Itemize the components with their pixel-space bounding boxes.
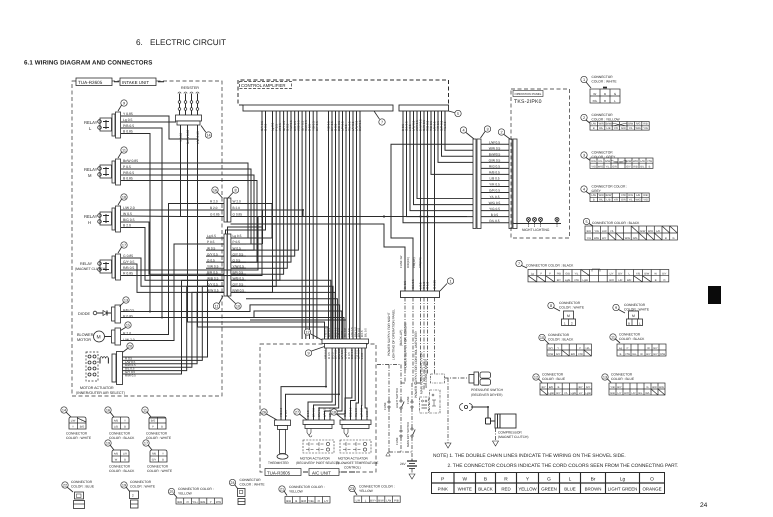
svg-text:11: 11 (122, 149, 126, 153)
svg-text:Y/L: Y/L (629, 199, 633, 202)
svg-text:Br: Br (594, 92, 597, 96)
svg-text:R/L: R/L (599, 199, 604, 202)
control amplifier connector bar (right) (399, 105, 449, 111)
svg-text:CONNECTOR: CONNECTOR (548, 333, 570, 337)
svg-text:RELAY: RELAY (80, 262, 93, 266)
svg-text:P/B: P/B (557, 273, 561, 276)
wire bundle: control amplifier to connector 11/10 (231, 111, 317, 339)
svg-text:G/R: G/R (612, 165, 617, 168)
connector 14 (white) (61, 407, 92, 440)
svg-text:G/Y: G/Y (556, 353, 561, 356)
svg-text:B: B (124, 459, 126, 462)
svg-text:COLOR : WHITE: COLOR : WHITE (147, 469, 173, 473)
svg-text:CONNECTOR: CONNECTOR (146, 432, 168, 436)
svg-text:16: 16 (106, 409, 110, 413)
svg-text:24V: 24V (400, 462, 407, 466)
svg-text:Y/B: Y/B (636, 273, 640, 276)
svg-text:6.: 6. (136, 38, 143, 47)
svg-text:B/R: B/R (652, 386, 656, 389)
connector table 5 (black) (583, 218, 677, 240)
svg-text:4: 4 (462, 129, 464, 133)
svg-text:Y/A: Y/A (587, 237, 591, 240)
svg-text:B/L: B/L (639, 392, 643, 395)
relay (magnet clutch) (98, 242, 128, 280)
wires: motor actuator 20 to bus (123, 280, 225, 374)
svg-text:W/G: W/G (636, 127, 641, 130)
wires at connector 11/10 (206, 234, 272, 292)
svg-text:14: 14 (62, 409, 66, 413)
svg-text:R/L: R/L (593, 99, 598, 103)
svg-text:CONNECTOR: CONNECTOR (109, 432, 131, 436)
svg-text:P: P (152, 426, 154, 429)
wires at connector 16/8 (209, 200, 272, 244)
svg-text:G 0.85: G 0.85 (433, 280, 437, 289)
svg-text:CONNECTOR COLOR : BLACK: CONNECTOR COLOR : BLACK (526, 264, 574, 268)
svg-text:THERMISTER: THERMISTER (268, 461, 289, 465)
svg-text:B/W: B/W (594, 237, 599, 240)
svg-text:P: P (441, 477, 444, 483)
svg-text:B: B (161, 426, 163, 429)
svg-text:B/R: B/R (549, 386, 553, 389)
svg-text:B/O: B/O (609, 279, 613, 282)
connector 9 (white) (613, 303, 650, 326)
svg-text:Lg: Lg (620, 477, 626, 483)
svg-text:CONNECTOR: CONNECTOR (130, 480, 152, 484)
motor actuator (recovery port select) (27) (294, 348, 346, 465)
svg-text:YELLOW: YELLOW (289, 490, 304, 494)
svg-text:R/B: R/B (643, 194, 648, 197)
svg-text:R/L: R/L (598, 160, 603, 163)
svg-text:B/G: B/G (80, 426, 84, 429)
svg-text:CONNECTOR COLOR :: CONNECTOR COLOR : (289, 485, 325, 489)
svg-text:L/W: L/W (591, 194, 596, 197)
svg-text:17: 17 (144, 442, 148, 446)
svg-text:R/B: R/B (152, 453, 157, 456)
svg-text:R/L 0.5: R/L 0.5 (354, 408, 358, 417)
svg-text:7: 7 (518, 262, 520, 266)
svg-text:BROWN: BROWN (585, 487, 602, 492)
power supply function labels (387, 309, 428, 398)
svg-text:Y/B 0.5: Y/B 0.5 (279, 407, 283, 417)
svg-text:CONNECTOR: CONNECTOR (592, 151, 614, 155)
svg-text:L/Y 0.5: L/Y 0.5 (323, 408, 327, 417)
svg-text:W/R: W/R (599, 194, 604, 197)
svg-text:Y: Y (162, 453, 164, 456)
wire: main power run (231, 209, 467, 218)
svg-text:G/B: G/B (610, 392, 615, 395)
svg-text:R 1.0: R 1.0 (426, 281, 430, 289)
svg-text:O 0.5: O 0.5 (284, 410, 288, 417)
svg-text:G: G (547, 477, 551, 483)
wires: diode and blower to bus (121, 204, 305, 341)
svg-text:CONNECTOR: CONNECTOR (147, 465, 169, 469)
svg-text:COLOR : WHITE: COLOR : WHITE (240, 483, 266, 487)
svg-text:L/R: L/R (356, 498, 360, 502)
night lighting lamps (514, 218, 562, 233)
svg-text:G/W: G/W (605, 160, 611, 163)
connector table 2 (yellow) (581, 113, 649, 130)
svg-text:W 2.0: W 2.0 (233, 200, 242, 204)
svg-text:L: L (569, 477, 572, 483)
svg-text:W/G: W/G (598, 165, 603, 168)
svg-text:G/Y: G/Y (626, 165, 631, 168)
svg-text:COLOR : BLUE: COLOR : BLUE (611, 377, 635, 381)
svg-text:CONNECTOR: CONNECTOR (542, 373, 564, 377)
pointer 5 (control amplifier connector right) (449, 110, 462, 116)
svg-text:H: H (88, 220, 91, 225)
svg-text:CONNECTOR COLOR : BLACK: CONNECTOR COLOR : BLACK (592, 221, 640, 225)
relay magnet-clutch output wires (123, 254, 135, 276)
svg-text:L/R: L/R (123, 453, 127, 456)
svg-text:ELECTRIC CIRCUIT: ELECTRIC CIRCUIT (150, 38, 226, 47)
svg-text:YELLOW: YELLOW (178, 492, 193, 496)
svg-text:13: 13 (124, 299, 128, 303)
svg-text:Y/G: Y/G (643, 199, 647, 202)
svg-text:R/G: R/G (636, 123, 641, 126)
svg-text:WHITE: WHITE (458, 487, 472, 492)
svg-text:L/B: L/B (114, 426, 118, 429)
svg-text:B/Y: B/Y (602, 237, 606, 240)
svg-text:G/L: G/L (632, 353, 637, 356)
svg-text:Y: Y (210, 500, 212, 504)
svg-text:16: 16 (213, 189, 217, 193)
svg-text:Y 0.85: Y 0.85 (179, 133, 183, 142)
relay H output wires (123, 206, 135, 228)
svg-text:CONNECTOR: CONNECTOR (592, 75, 614, 79)
svg-text:Y/B+: Y/B+ (308, 499, 315, 503)
svg-text:NIGHT LIGHTING: NIGHT LIGHTING (522, 228, 550, 232)
svg-text:25: 25 (169, 490, 173, 494)
svg-text:3: 3 (486, 128, 488, 132)
svg-text:G 0.85: G 0.85 (123, 254, 133, 258)
svg-text:MAIN POWER SUPPLY FOR: MAIN POWER SUPPLY FOR (420, 352, 424, 394)
svg-text:Y/W: Y/W (621, 194, 626, 197)
svg-text:L/B: L/B (636, 194, 640, 197)
pressure switch (receiver dryer) (445, 372, 504, 448)
svg-text:COLOR : BLACK: COLOR : BLACK (109, 436, 135, 440)
svg-text:L/R 0.5: L/R 0.5 (360, 408, 364, 417)
svg-text:2. THE CONNECTOR COLORS INDICA: 2. THE CONNECTOR COLORS INDICATE THE COR… (448, 463, 679, 469)
svg-text:R/B: R/B (643, 123, 648, 126)
connector 11b (white) (142, 407, 172, 440)
svg-text:P: P (579, 347, 581, 350)
wire labels above connector 12/9 (324, 327, 368, 337)
svg-text:Y/B: Y/B (610, 386, 614, 389)
svg-text:NOTE) 1. THE DOUBLE CHAIN LINE: NOTE) 1. THE DOUBLE CHAIN LINES INDICATE… (433, 453, 626, 459)
svg-text:B/R: B/R (571, 353, 575, 356)
svg-text:CONTROL): CONTROL) (344, 465, 361, 469)
svg-text:R 0.85: R 0.85 (123, 272, 133, 276)
svg-text:B: B (593, 199, 595, 202)
svg-text:CONTROL AMPLIFIER: CONTROL AMPLIFIER (241, 83, 286, 88)
svg-text:G/Y: G/Y (586, 386, 591, 389)
svg-text:A/B: A/B (114, 420, 118, 423)
wires: control amplifier to connector 4 (403, 111, 473, 223)
svg-text:CONNECTOR: CONNECTOR (592, 113, 614, 117)
svg-text:Y/G: Y/G (643, 127, 647, 130)
svg-text:Y/L: Y/L (564, 392, 568, 395)
svg-text:B: B (649, 165, 651, 168)
pointer 7 (control amplifier connector) (374, 111, 385, 125)
shovel-side power chains (double chain lines) (377, 298, 445, 480)
svg-text:B: B (593, 127, 595, 130)
svg-text:(BACK-UP): (BACK-UP) (399, 330, 403, 346)
svg-text:B/R: B/R (178, 500, 183, 504)
svg-text:R: R (504, 477, 508, 483)
svg-text:INTAKE UNIT: INTAKE UNIT (122, 80, 149, 85)
svg-text:(MAGNET CLUTCH): (MAGNET CLUTCH) (498, 435, 529, 439)
svg-text:P/B 0.5: P/B 0.5 (123, 124, 134, 128)
svg-text:Lg/B: Lg/B (548, 392, 554, 395)
power supply connector bar 1 (401, 278, 454, 298)
svg-text:M: M (567, 314, 570, 318)
svg-text:L/W 0.85: L/W 0.85 (196, 131, 200, 144)
section heading (24, 60, 152, 67)
svg-text:CONNECTOR COLOR :: CONNECTOR COLOR : (359, 485, 395, 489)
svg-text:B/Y: B/Y (579, 386, 583, 389)
connector table 13 (blue) (602, 373, 665, 396)
svg-text:Y/W 0.5: Y/W 0.5 (207, 264, 219, 268)
svg-text:4: 4 (583, 188, 585, 192)
svg-text:R/G 0.5: R/G 0.5 (489, 165, 500, 169)
svg-text:R/L 0.5: R/L 0.5 (489, 219, 499, 223)
svg-text:R/G: R/G (591, 160, 596, 163)
svg-text:O/B(1W): O/B(1W) (406, 257, 410, 268)
svg-text:B/R: B/R (627, 279, 631, 282)
svg-text:CONNECTOR: CONNECTOR (71, 480, 93, 484)
svg-text:COLOR : WHITE: COLOR : WHITE (559, 306, 585, 310)
svg-text:8: 8 (234, 189, 236, 193)
svg-text:Y/W: Y/W (625, 353, 630, 356)
svg-text:Y/L: Y/L (629, 127, 633, 130)
page edge tab (708, 286, 721, 304)
svg-text:CONNECTOR: CONNECTOR (559, 301, 581, 305)
svg-text:O: O (650, 477, 654, 483)
svg-text:A/C UNIT: A/C UNIT (312, 470, 331, 475)
wire labels under control amplifier bar (260, 119, 447, 131)
svg-text:27: 27 (295, 411, 299, 415)
svg-text:POWER SUPPLY FOR CONTROL AMPLI: POWER SUPPLY FOR CONTROL AMPLIFIER (414, 331, 418, 398)
svg-text:CONNECTOR COLOR :: CONNECTOR COLOR : (178, 487, 214, 491)
svg-text:P/B 0.5: P/B 0.5 (123, 171, 134, 175)
svg-text:11: 11 (611, 336, 615, 340)
svg-text:Y: Y (124, 420, 126, 423)
svg-text:1: 1 (449, 280, 451, 284)
svg-text:M: M (632, 314, 635, 318)
svg-text:5: 5 (457, 112, 459, 116)
svg-text:CONNECTOR COLOR :: CONNECTOR COLOR : (592, 185, 628, 189)
svg-text:B/G: B/G (659, 386, 663, 389)
connector 16 (black) (105, 407, 135, 440)
svg-text:Y/L: Y/L (610, 230, 614, 233)
connector 2 vertical bar (498, 129, 517, 229)
connector 8 (white) (548, 301, 585, 326)
svg-text:(MAGNET CLUTCH): (MAGNET CLUTCH) (75, 267, 106, 271)
svg-text:GREY: GREY (592, 189, 602, 193)
svg-text:L/R: L/R (631, 392, 635, 395)
svg-text:P 0.5: P 0.5 (123, 165, 131, 169)
connector table 7 (black) (516, 260, 669, 282)
svg-text:CONNECTOR: CONNECTOR (66, 432, 88, 436)
svg-text:Y/R: Y/R (614, 127, 618, 130)
svg-text:9: 9 (123, 102, 125, 106)
svg-text:Y/L: Y/L (606, 165, 610, 168)
svg-text:W/G: W/G (625, 237, 630, 240)
svg-text:Br/W: Br/W (626, 160, 632, 163)
svg-text:L/Y: L/Y (579, 392, 583, 395)
svg-text:15: 15 (126, 324, 130, 328)
svg-text:Br/W 0.85: Br/W 0.85 (186, 130, 190, 144)
svg-text:COLOR : BLUE: COLOR : BLUE (71, 485, 95, 489)
svg-text:OPERATION PANEL: OPERATION PANEL (515, 92, 542, 96)
svg-text:19: 19 (106, 442, 110, 446)
svg-text:B/G: B/G (151, 420, 155, 423)
wire bundle: control amplifier to connector 12/9 (162, 111, 360, 339)
svg-text:G: G (673, 237, 675, 240)
svg-text:B: B (162, 459, 164, 462)
svg-text:Lg 0.5: Lg 0.5 (123, 118, 133, 122)
connector 19b (white) (121, 480, 156, 508)
connector 17 (white) (143, 440, 173, 473)
svg-text:B/Y: B/Y (556, 392, 560, 395)
connector 11/10 bar (213, 234, 241, 309)
wire labels below connector 12/9 (324, 349, 364, 359)
svg-text:9: 9 (307, 352, 309, 356)
svg-text:Y/L: Y/L (574, 273, 578, 276)
svg-text:W/R: W/R (599, 123, 604, 126)
connector 19 (black) (105, 440, 135, 473)
svg-text:Lg/B: Lg/B (565, 279, 571, 282)
svg-text:G/Y: G/Y (548, 347, 553, 350)
svg-text:RESISTER: RESISTER (181, 86, 199, 90)
wire ladder between connectors 4 and 2 (481, 140, 509, 223)
svg-text:TUA-R3605: TUA-R3605 (78, 80, 103, 85)
svg-text:L/W: L/W (386, 498, 391, 502)
svg-text:P/W: P/W (216, 500, 222, 504)
connector 22 (blue) (62, 480, 95, 509)
svg-text:B/W: B/W (628, 123, 633, 126)
svg-text:B/Y: B/Y (542, 386, 546, 389)
svg-text:(INNER/OUTER AIR SELECT): (INNER/OUTER AIR SELECT) (76, 391, 125, 395)
svg-text:W 0.5: W 0.5 (207, 246, 216, 250)
motor actuator (blow/off temperature control) (18) (268, 348, 378, 469)
svg-text:B: B (620, 353, 622, 356)
svg-text:11: 11 (215, 305, 219, 309)
svg-text:B/L 0.5: B/L 0.5 (363, 328, 367, 337)
svg-text:COLOR : BLACK: COLOR : BLACK (619, 337, 645, 341)
svg-text:G/R 0.5: G/R 0.5 (489, 189, 500, 193)
svg-text:COLOR : WHITE: COLOR : WHITE (130, 485, 156, 489)
connector 24 (white) (229, 478, 265, 505)
svg-text:RELAY: RELAY (84, 167, 98, 172)
svg-text:2: 2 (500, 131, 502, 135)
svg-text:M: M (88, 173, 92, 178)
svg-text:B/W: B/W (644, 273, 649, 276)
svg-text:2: 2 (583, 116, 585, 120)
svg-text:L/Y: L/Y (324, 499, 328, 503)
svg-text:26: 26 (262, 411, 266, 415)
svg-text:11: 11 (143, 409, 147, 413)
svg-text:COLOR : WHITE: COLOR : WHITE (592, 80, 618, 84)
svg-text:14: 14 (206, 134, 210, 138)
svg-text:RELAY: RELAY (84, 120, 98, 125)
svg-text:6.1 WIRING DIAGRAM AND CON: 6.1 WIRING DIAGRAM AND CONNECTORS (24, 60, 152, 67)
svg-text:9: 9 (615, 306, 617, 310)
svg-text:H/L: H/L (586, 347, 591, 350)
svg-text:P: P (540, 273, 542, 276)
svg-text:Y/W: Y/W (647, 160, 652, 163)
svg-text:POWER SUPPLY FOR MEMORY: POWER SUPPLY FOR MEMORY (404, 321, 408, 370)
svg-text:Br/W: Br/W (606, 194, 612, 197)
svg-text:7: 7 (381, 121, 383, 125)
svg-text:Lg/B: Lg/B (585, 392, 591, 395)
svg-text:B/G: B/G (201, 500, 206, 504)
svg-text:G/R: G/R (621, 127, 626, 130)
svg-text:P/B: P/B (394, 498, 399, 502)
svg-text:LIGHT GREEN: LIGHT GREEN (608, 487, 638, 492)
svg-text:FUSE 1W: FUSE 1W (399, 255, 403, 268)
svg-text:B/L: B/L (641, 165, 645, 168)
blower motor (77, 322, 135, 345)
svg-text:L/B: L/B (607, 127, 611, 130)
svg-text:COLOR : BLUE: COLOR : BLUE (542, 377, 566, 381)
compressor magnet clutch connector (460, 404, 489, 419)
A/C UNIT enclosure (dashed) (260, 344, 376, 476)
svg-text:Y: Y (72, 426, 74, 429)
svg-text:GREEN: GREEN (541, 487, 557, 492)
svg-text:Br/W 0.85: Br/W 0.85 (123, 159, 138, 163)
operation panel enclosure (dashed) (511, 89, 570, 238)
svg-text:B/Y: B/Y (662, 273, 666, 276)
svg-text:B/Y: B/Y (646, 353, 650, 356)
thermister (26) (261, 348, 340, 459)
svg-text:BLOWER: BLOWER (77, 333, 94, 337)
control amplifier enclosure (dashed) (238, 80, 449, 105)
svg-text:Y: Y (557, 347, 559, 350)
svg-text:G/Y: G/Y (152, 459, 157, 462)
svg-text:B: B (484, 477, 487, 483)
svg-text:R/G: R/G (628, 194, 633, 197)
svg-text:B 0.85: B 0.85 (123, 177, 133, 181)
svg-text:Y/G: Y/G (591, 165, 595, 168)
INTAKE UNIT enclosure (dashed) (72, 78, 222, 396)
svg-text:Br: Br (591, 477, 596, 483)
svg-text:R/W: R/W (548, 353, 554, 356)
svg-text:B: B (295, 499, 297, 503)
svg-text:Y/G: Y/G (594, 230, 598, 233)
svg-text:CONNECTOR: CONNECTOR (109, 465, 131, 469)
svg-text:L/W 2.0: L/W 2.0 (123, 206, 135, 210)
svg-text:L/W 0.5: L/W 0.5 (489, 140, 500, 144)
cord color code table (432, 473, 665, 494)
svg-text:G/Y 0.5: G/Y 0.5 (123, 260, 135, 264)
svg-text:RED: RED (501, 487, 510, 492)
svg-text:L/W: L/W (591, 123, 596, 126)
svg-text:CONNECTOR: CONNECTOR (611, 373, 633, 377)
connector table 25 (yellow) (168, 487, 222, 504)
svg-text:W/R: W/R (648, 230, 653, 233)
relay L output wires (123, 112, 134, 134)
svg-text:COLOR : WHITE: COLOR : WHITE (146, 436, 172, 440)
svg-text:P/B(3W): P/B(3W) (412, 257, 416, 268)
svg-text:24: 24 (700, 502, 708, 509)
svg-text:B/O 0.5: B/O 0.5 (349, 407, 353, 417)
relay M output wires (123, 159, 138, 181)
svg-text:Y/R 0.5: Y/R 0.5 (489, 183, 500, 187)
connector table 12 (blue) (533, 373, 592, 396)
connector 4 vertical bar (460, 127, 481, 229)
svg-text:B: B (124, 426, 126, 429)
